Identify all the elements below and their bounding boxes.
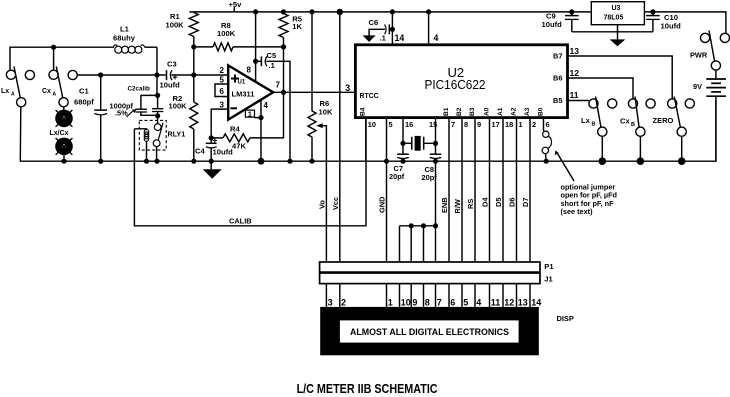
value label L1 bbox=[120, 25, 130, 34]
svg-text:J1: J1 bbox=[544, 274, 553, 283]
pin 3 label bbox=[220, 101, 225, 110]
svg-text:B: B bbox=[592, 122, 596, 128]
wire Lx_A common to ground rail bbox=[19, 107, 22, 161]
wire +5v rail bbox=[189, 12, 726, 34]
svg-text:Cx: Cx bbox=[42, 88, 51, 95]
switch ZERO common contact bbox=[677, 127, 686, 136]
pin 1 box bbox=[245, 110, 254, 119]
label C9 bbox=[546, 12, 556, 21]
wire R1 to tank node bbox=[193, 47, 195, 75]
connector J1 divider bbox=[320, 271, 540, 274]
port label B6 bbox=[553, 74, 562, 83]
svg-text:9: 9 bbox=[477, 120, 481, 129]
svg-text:CALIB: CALIB bbox=[229, 216, 252, 225]
pin 18 label bbox=[505, 120, 513, 129]
label CALIB bbox=[229, 216, 252, 225]
wire L1 left drop to Lx_A switch bbox=[10, 47, 114, 70]
label minus input bbox=[231, 107, 238, 109]
svg-text:4: 4 bbox=[434, 33, 439, 43]
label PIC16C622 bbox=[425, 77, 486, 92]
wire tank to C2 branch bbox=[156, 75, 158, 95]
svg-text:B3: B3 bbox=[469, 107, 476, 116]
label Cx_B bbox=[620, 117, 635, 129]
net label D6 bbox=[508, 198, 517, 207]
svg-text:10: 10 bbox=[401, 297, 411, 307]
label PWR bbox=[690, 51, 708, 60]
pin 10 wire B4 bbox=[365, 118, 367, 162]
svg-text:3: 3 bbox=[345, 83, 350, 93]
switch Cx_B left contact bbox=[628, 99, 637, 108]
connector pin 8 label bbox=[425, 297, 430, 307]
junction bbox=[61, 159, 66, 164]
label RLY1 bbox=[168, 130, 186, 139]
connector pin 11 label bbox=[491, 297, 501, 307]
junction bbox=[209, 135, 214, 140]
switch ZERO left contact bbox=[668, 99, 677, 108]
junction bbox=[155, 113, 160, 118]
svg-text:D5: D5 bbox=[494, 198, 503, 207]
pin 4 label bbox=[264, 101, 269, 110]
label C10 bbox=[664, 13, 678, 22]
label R4 bbox=[230, 125, 240, 134]
node +5v bbox=[229, 0, 243, 9]
svg-text:B2: B2 bbox=[456, 107, 463, 116]
wire pin 3 bbox=[211, 109, 228, 138]
net label D4 bbox=[481, 197, 490, 207]
svg-text:LM311: LM311 bbox=[232, 89, 255, 98]
connector pin 12 wire bbox=[502, 284, 504, 307]
label Lx_A bbox=[1, 88, 15, 98]
value label 10ufd bbox=[661, 22, 682, 31]
junction bbox=[258, 115, 263, 120]
switch PWR left contact bbox=[701, 33, 710, 42]
label LM311 bbox=[232, 89, 255, 98]
svg-text:(see text): (see text) bbox=[561, 207, 594, 216]
net label ENB bbox=[440, 197, 449, 213]
svg-text:9V: 9V bbox=[693, 82, 702, 91]
label DISP bbox=[557, 314, 574, 323]
junction bbox=[154, 72, 159, 77]
label C8 bbox=[425, 165, 434, 174]
resistor R1 bbox=[189, 13, 198, 47]
value label 10K bbox=[319, 108, 333, 117]
svg-text:47K: 47K bbox=[232, 142, 246, 151]
port label B7 bbox=[553, 52, 562, 61]
switch Cx_A lever bbox=[56, 67, 63, 99]
svg-text:ENB: ENB bbox=[440, 197, 449, 213]
label C4 bbox=[195, 147, 205, 156]
label R6 bbox=[320, 99, 330, 108]
pin 6 label bbox=[220, 87, 225, 96]
svg-text:.5%: .5% bbox=[115, 109, 128, 118]
wire ground rail bbox=[20, 101, 716, 162]
label J1 bbox=[544, 274, 553, 283]
pin 5 wire GND bbox=[386, 118, 388, 262]
switch Cx_A throw contact bbox=[49, 70, 58, 79]
junction bbox=[400, 159, 405, 164]
svg-text:10: 10 bbox=[368, 120, 376, 129]
jumper wire arc bbox=[548, 136, 552, 148]
svg-text:C3: C3 bbox=[167, 60, 177, 69]
pin 15 label bbox=[429, 120, 437, 129]
svg-text:PWR: PWR bbox=[690, 51, 708, 60]
value label 100K bbox=[217, 29, 236, 38]
switch Cx_B common contact bbox=[636, 127, 645, 136]
pin 4 wire bbox=[428, 12, 430, 45]
value label .5% bbox=[115, 109, 128, 118]
resistor R4 bbox=[211, 92, 283, 142]
switch Lx_B lever bbox=[596, 97, 602, 128]
svg-text:D6: D6 bbox=[508, 198, 517, 207]
pin 5 label bbox=[220, 76, 225, 85]
svg-text:100K: 100K bbox=[169, 102, 188, 111]
wire tank rail bbox=[77, 74, 166, 76]
port label B4 bbox=[360, 107, 367, 116]
svg-text:RS: RS bbox=[466, 199, 475, 209]
label 78L05 bbox=[604, 15, 624, 22]
wire regulator ground bus bbox=[572, 25, 653, 40]
junction bbox=[154, 159, 159, 164]
svg-text:Vo: Vo bbox=[318, 200, 327, 209]
switch ZERO right contact bbox=[685, 99, 694, 108]
svg-text:+5v: +5v bbox=[229, 0, 243, 9]
switch Cx_B right contact bbox=[646, 99, 655, 108]
switch Cx_A common contact bbox=[59, 98, 68, 107]
connector pin 6 label bbox=[450, 297, 455, 307]
value label .1 bbox=[380, 34, 387, 43]
svg-text:A0: A0 bbox=[483, 107, 490, 116]
inductor L1 bbox=[113, 45, 157, 53]
pin 14 wire bbox=[391, 12, 393, 45]
port label A3 bbox=[524, 107, 531, 116]
svg-text:B0: B0 bbox=[537, 107, 544, 116]
junction bbox=[433, 159, 438, 164]
net label D7 bbox=[521, 198, 530, 207]
value label 20pf bbox=[422, 173, 438, 182]
relay RLY1 contact bbox=[153, 116, 163, 161]
pin 16 wire bbox=[402, 118, 404, 155]
connector pin 13 label bbox=[518, 297, 528, 307]
svg-text:10ufd: 10ufd bbox=[542, 20, 563, 29]
pin 15 wire bbox=[435, 118, 437, 155]
pin 4 wire bbox=[260, 100, 262, 118]
wire pin1/pin4 to ground bbox=[255, 118, 262, 162]
capacitor C9 bbox=[565, 9, 579, 32]
connector pin 13 wire bbox=[516, 284, 518, 307]
connector pin 14 wire bbox=[529, 284, 531, 307]
svg-text:Lx/Cx: Lx/Cx bbox=[50, 130, 69, 137]
pin 12 label bbox=[570, 68, 580, 78]
wire L1 to tank rail bbox=[156, 47, 158, 75]
svg-text:1: 1 bbox=[248, 110, 252, 119]
svg-text:.1: .1 bbox=[380, 34, 387, 43]
connector pin 4 wire bbox=[474, 284, 476, 307]
capacitor C2 1000pf bbox=[152, 95, 163, 115]
junction bbox=[544, 159, 549, 164]
svg-text:10ufd: 10ufd bbox=[160, 81, 181, 90]
svg-text:8: 8 bbox=[247, 66, 252, 75]
battery 9V bbox=[706, 70, 726, 161]
label U3 bbox=[612, 5, 621, 12]
svg-text:ALMOST ALL DIGITAL ELECTRONICS: ALMOST ALL DIGITAL ELECTRONICS bbox=[350, 327, 510, 338]
value label .1 bbox=[269, 61, 276, 70]
value label 680pf bbox=[74, 98, 94, 107]
connector pin 4 label bbox=[476, 297, 481, 307]
ground symbol bbox=[203, 161, 222, 179]
junction bbox=[155, 93, 160, 98]
svg-text:C4: C4 bbox=[195, 147, 205, 156]
wire +5 to pot bbox=[311, 12, 313, 111]
polarity mark bbox=[213, 138, 217, 142]
svg-text:U3: U3 bbox=[612, 5, 621, 12]
label Lx/Cx bbox=[50, 130, 69, 137]
svg-text:11: 11 bbox=[491, 297, 501, 307]
label U1 bbox=[238, 80, 246, 86]
svg-text:10ufd: 10ufd bbox=[213, 148, 234, 157]
junction bbox=[678, 157, 686, 165]
junction bbox=[599, 157, 607, 165]
port label B2 bbox=[456, 107, 463, 116]
connector pin 10 wire bbox=[399, 284, 401, 307]
connector pin 5 wire bbox=[461, 284, 463, 307]
svg-text:5: 5 bbox=[220, 76, 225, 85]
connector pin 9 label bbox=[412, 297, 417, 307]
svg-text:9: 9 bbox=[412, 297, 417, 307]
crystal Y1 bbox=[400, 136, 438, 151]
svg-text:680pf: 680pf bbox=[74, 98, 94, 107]
svg-text:4: 4 bbox=[264, 101, 269, 110]
label Cx_A bbox=[42, 88, 57, 98]
pin 17 label bbox=[492, 120, 500, 129]
switch Lx_B right contact bbox=[608, 99, 617, 108]
capacitor C5 bbox=[256, 56, 290, 161]
polarity mark bbox=[173, 75, 177, 79]
title bbox=[297, 381, 438, 396]
port label A0 bbox=[483, 107, 490, 116]
pin 7 label bbox=[451, 120, 455, 129]
svg-text:16: 16 bbox=[405, 120, 413, 129]
svg-text:PIC16C622: PIC16C622 bbox=[425, 77, 486, 92]
svg-text:1K: 1K bbox=[292, 22, 302, 31]
wire pin8 to +5v bbox=[255, 12, 257, 61]
pin 7 label bbox=[276, 81, 281, 90]
pin 13 label bbox=[570, 46, 580, 56]
wire ZERO common to ground bbox=[681, 136, 683, 161]
wire data line bbox=[516, 118, 518, 262]
svg-text:A3: A3 bbox=[524, 107, 531, 116]
junction bbox=[98, 72, 103, 77]
svg-text:4: 4 bbox=[476, 297, 481, 307]
svg-text:ZERO: ZERO bbox=[653, 116, 674, 125]
connector pin 1 wire bbox=[386, 284, 388, 307]
junction bbox=[191, 159, 196, 164]
connector pin 11 wire bbox=[489, 284, 491, 307]
connector pin 7 wire bbox=[435, 284, 437, 307]
terminal jack upper bbox=[55, 110, 73, 128]
junction bbox=[281, 9, 286, 14]
label plus input bbox=[231, 75, 239, 83]
junction bbox=[51, 45, 56, 50]
svg-text:C6: C6 bbox=[369, 18, 379, 27]
connector pin 3 wire bbox=[325, 284, 327, 307]
label R1 bbox=[170, 12, 180, 21]
switch Lx_A throw contact bbox=[6, 70, 15, 79]
svg-text:17: 17 bbox=[492, 120, 500, 129]
resistor R5 bbox=[279, 14, 288, 93]
value label 20pf bbox=[389, 172, 405, 181]
value label 10ufd bbox=[213, 148, 234, 157]
connector pin 6 wire bbox=[448, 284, 450, 307]
svg-text:P1: P1 bbox=[544, 262, 554, 271]
connector pin 7 label bbox=[437, 297, 442, 307]
switch Lx_A lever bbox=[14, 67, 20, 99]
net label Vcc bbox=[331, 197, 340, 210]
wire Lx_B common to ground bbox=[601, 136, 603, 161]
capacitor C4 bbox=[206, 138, 217, 161]
label C1 bbox=[79, 87, 89, 96]
wire data line bbox=[461, 118, 463, 262]
wire data line bbox=[502, 118, 504, 262]
net label D5 bbox=[494, 198, 503, 207]
pin 16 label bbox=[405, 120, 413, 129]
wire Cx_A common to jack bbox=[63, 107, 65, 110]
wire data line bbox=[529, 118, 531, 262]
capacitor C10 bbox=[646, 9, 660, 32]
pin 6 label bbox=[546, 120, 550, 129]
svg-text:A: A bbox=[11, 92, 15, 98]
capacitor C7 bbox=[397, 154, 409, 161]
svg-text:B5: B5 bbox=[553, 96, 562, 105]
svg-text:100K: 100K bbox=[217, 29, 236, 38]
svg-text:12: 12 bbox=[570, 68, 580, 78]
resistor R2 bbox=[190, 75, 198, 161]
svg-text:1: 1 bbox=[388, 297, 393, 307]
svg-text:.1: .1 bbox=[269, 61, 276, 70]
svg-text:U1: U1 bbox=[238, 80, 246, 86]
switch PWR common contact bbox=[711, 61, 720, 70]
callout arrow bbox=[555, 151, 574, 182]
net label GND bbox=[378, 196, 387, 213]
capacitor C2 trimmer bbox=[127, 95, 158, 117]
connector pin 14 label bbox=[531, 297, 541, 307]
svg-text:B6: B6 bbox=[553, 74, 562, 83]
svg-text:6: 6 bbox=[220, 87, 225, 96]
wire data line bbox=[474, 118, 476, 262]
connector pin 9 wire bbox=[410, 284, 412, 307]
value label 100K bbox=[166, 21, 185, 30]
port label A2 bbox=[510, 107, 517, 116]
capacitor C8 bbox=[430, 154, 442, 161]
regulator U3 box bbox=[591, 2, 644, 25]
label R8 bbox=[221, 21, 231, 30]
value label 1000pf bbox=[110, 102, 134, 111]
svg-text:14: 14 bbox=[395, 33, 405, 43]
svg-text:RTCC: RTCC bbox=[360, 93, 379, 100]
wire data line bbox=[489, 118, 491, 262]
value label 100K bbox=[169, 102, 188, 111]
port label B1 bbox=[443, 107, 450, 116]
svg-text:7: 7 bbox=[437, 297, 442, 307]
wire display ground bus bbox=[400, 161, 436, 262]
label R2 bbox=[173, 94, 183, 103]
net label RS bbox=[466, 199, 475, 209]
label P1 bbox=[544, 262, 554, 271]
pin 11 label bbox=[570, 90, 579, 100]
svg-text:B4: B4 bbox=[360, 107, 367, 116]
junction bbox=[637, 157, 645, 165]
svg-text:Vcc: Vcc bbox=[331, 197, 340, 210]
svg-text:D4: D4 bbox=[481, 197, 490, 207]
value label 1K bbox=[292, 22, 302, 31]
capacitor C3 bbox=[167, 70, 229, 80]
terminal jack lower bbox=[55, 138, 73, 156]
port label A1 bbox=[497, 107, 504, 116]
svg-text:5: 5 bbox=[463, 297, 468, 307]
connector pin 1 label bbox=[388, 297, 393, 307]
pin 2 label bbox=[220, 66, 225, 75]
svg-text:B7: B7 bbox=[553, 52, 562, 61]
svg-text:8: 8 bbox=[425, 297, 430, 307]
wire jack to ground rail bbox=[63, 155, 65, 161]
svg-text:Lx: Lx bbox=[581, 116, 591, 125]
svg-text:6: 6 bbox=[546, 120, 550, 129]
relay RLY1 coil bbox=[134, 129, 148, 161]
ic U2 box bbox=[355, 45, 567, 118]
svg-text:DISP: DISP bbox=[557, 314, 574, 323]
svg-text:10ufd: 10ufd bbox=[661, 22, 682, 31]
port label B0 bbox=[537, 107, 544, 116]
svg-text:11: 11 bbox=[570, 90, 579, 100]
svg-text:L1: L1 bbox=[120, 25, 130, 34]
label 9V bbox=[693, 82, 702, 91]
pin 8 label bbox=[247, 66, 252, 75]
pin 3 label bbox=[345, 83, 350, 93]
label C5 bbox=[267, 51, 277, 60]
svg-text:1: 1 bbox=[519, 120, 523, 129]
label R5 bbox=[292, 14, 302, 23]
label C2calib bbox=[128, 86, 151, 93]
switch Lx_A common contact bbox=[17, 98, 26, 107]
switch PWR right contact bbox=[720, 33, 729, 42]
svg-text:12: 12 bbox=[504, 297, 514, 307]
pin 8 wire bbox=[255, 61, 257, 82]
pin 9 label bbox=[477, 120, 481, 129]
svg-text:A1: A1 bbox=[497, 107, 504, 116]
jumper contact lower bbox=[542, 147, 548, 153]
pot wiper Vo net bbox=[316, 123, 326, 262]
pin 14 label bbox=[395, 33, 405, 43]
svg-text:5: 5 bbox=[389, 120, 393, 129]
value label 47K bbox=[232, 142, 246, 151]
svg-text:B: B bbox=[631, 122, 635, 128]
svg-text:2: 2 bbox=[532, 120, 536, 129]
pin 1 label bbox=[519, 120, 523, 129]
label C6 bbox=[369, 18, 379, 27]
switch Cx_A right contact bbox=[68, 70, 77, 79]
junction bbox=[287, 159, 292, 164]
junction bbox=[253, 59, 258, 64]
svg-text:C1: C1 bbox=[79, 87, 89, 96]
port label B3 bbox=[469, 107, 476, 116]
svg-text:8: 8 bbox=[464, 120, 468, 129]
wire Vcc net bbox=[339, 12, 341, 262]
junction bbox=[281, 90, 286, 95]
wire B7 to ZERO switch bbox=[568, 56, 673, 99]
wire CALIB net bbox=[134, 118, 366, 226]
svg-text:7: 7 bbox=[451, 120, 455, 129]
op-amp U1 LM311 bbox=[228, 65, 273, 119]
junction bbox=[98, 159, 103, 164]
